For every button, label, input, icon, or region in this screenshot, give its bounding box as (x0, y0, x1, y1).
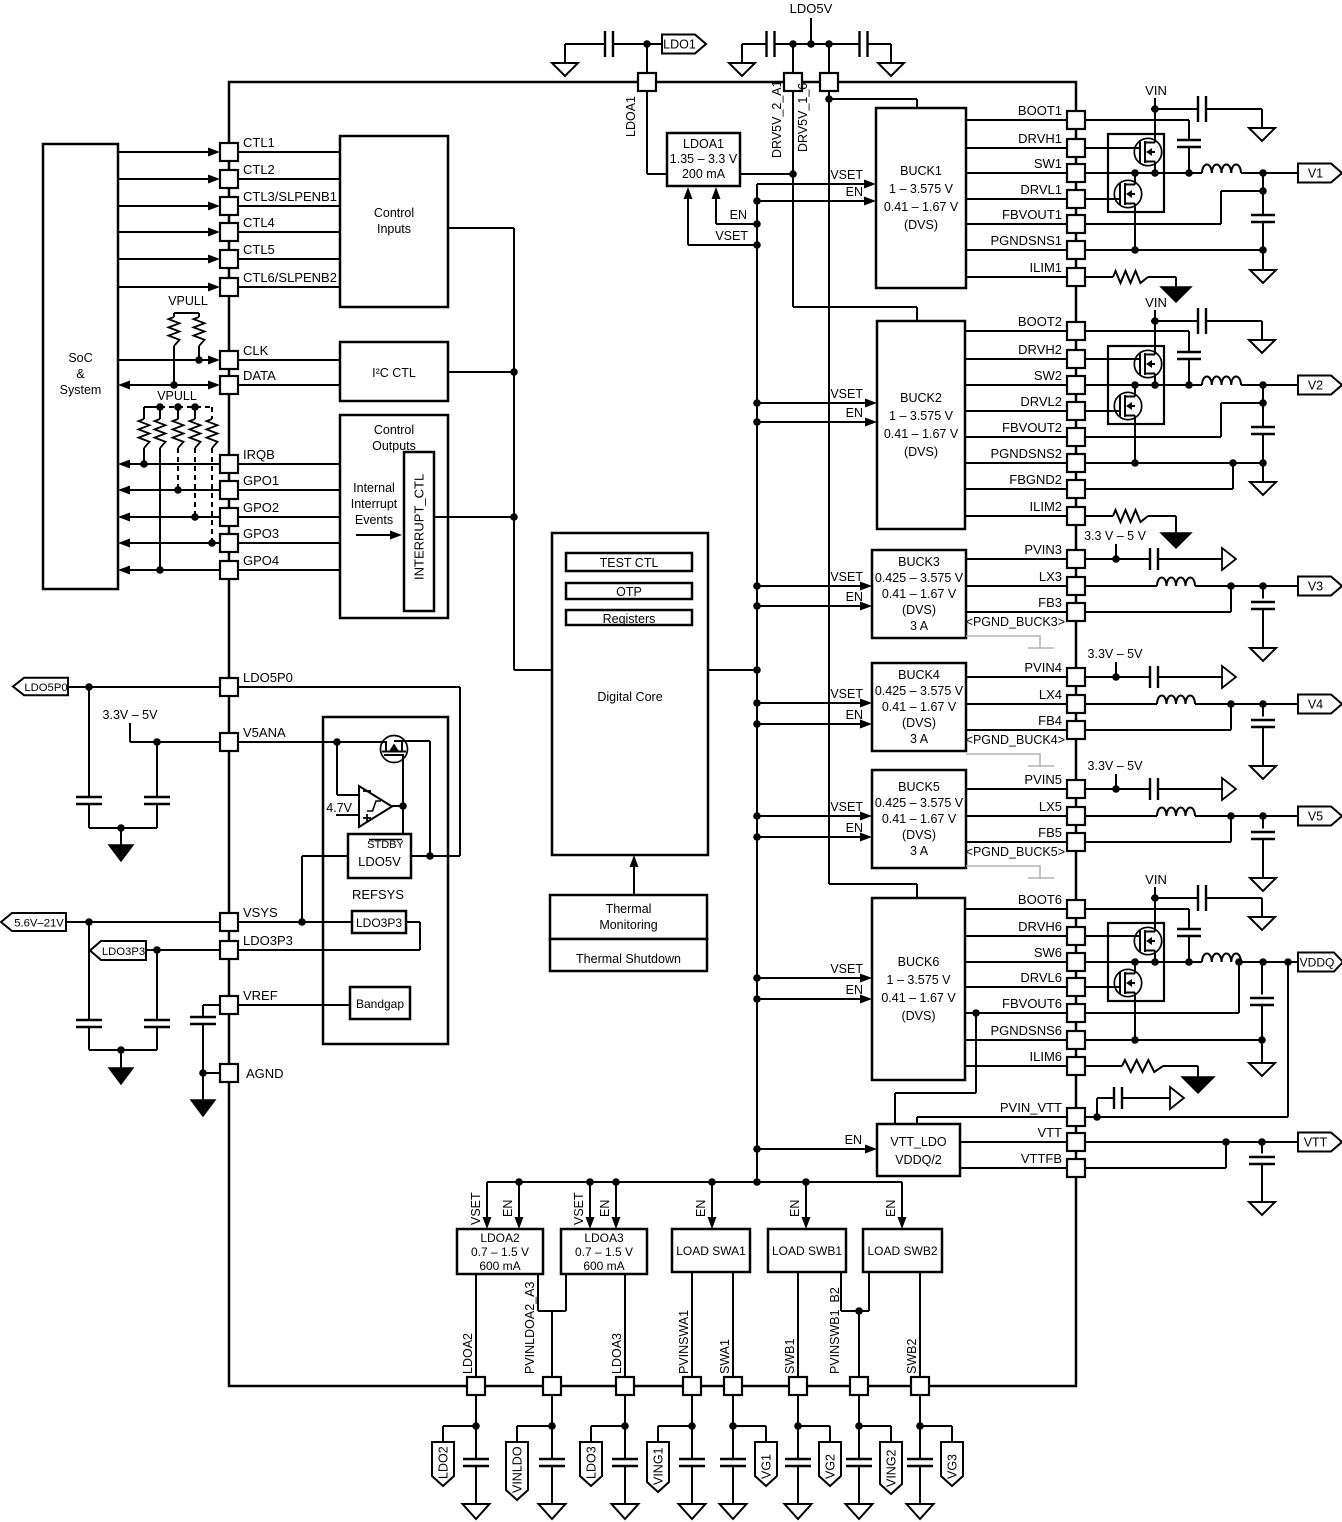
pin CTL3/SLPENB1 (220, 189, 337, 215)
svg-text:0.7 – 1.5 V: 0.7 – 1.5 V (471, 1245, 529, 1259)
wire VIN cap to ground (BUCK1) (1206, 109, 1262, 128)
svg-text:V3: V3 (1308, 580, 1323, 594)
wire CTL6/SLPENB2 to Control Inputs (238, 286, 340, 288)
transistor Q2H (high side) (1085, 321, 1162, 385)
label VSET (BUCK6) (830, 962, 863, 976)
node LDO5V output junction (426, 852, 434, 860)
svg-text:CTL2: CTL2 (243, 162, 275, 177)
svg-text:LX5: LX5 (1039, 799, 1062, 814)
flag VG3 (941, 1442, 963, 1486)
wire VSYS cap ground join (89, 1046, 157, 1068)
svg-text:STDBY: STDBY (367, 839, 404, 851)
wire SoC to CTL2 (118, 175, 220, 184)
ground (VIN BUCK6) (1249, 917, 1275, 930)
pin GPO3 (220, 526, 279, 552)
wire VSET to BUCK3 (757, 582, 872, 591)
label EN (LDOA1) (730, 208, 747, 222)
svg-text:EN: EN (846, 708, 863, 722)
svg-text:EN: EN (846, 983, 863, 997)
ground PGND_BUCK3 (ghost) (966, 636, 1054, 648)
label 3.3V-5V (BUCK3) (1084, 529, 1147, 543)
svg-text:DRVL2: DRVL2 (1020, 394, 1062, 409)
pin PVIN3 (1024, 542, 1085, 568)
svg-text:BOOT2: BOOT2 (1018, 314, 1062, 329)
svg-text:VSET: VSET (830, 168, 863, 182)
wire FBVOUT1 internal (966, 223, 1067, 225)
svg-text:Events: Events (355, 513, 393, 527)
wire LX3 internal (966, 585, 1067, 587)
wire GPO4 to Control Outputs (238, 569, 340, 571)
svg-text:(DVS): (DVS) (901, 1009, 935, 1023)
svg-text:VTT: VTT (1037, 1125, 1062, 1140)
pin LX4 (1039, 687, 1085, 713)
svg-text:PVIN4: PVIN4 (1024, 660, 1062, 675)
wire DRVL2 internal (965, 410, 1067, 412)
ground (VOUT2) (1250, 482, 1276, 495)
svg-text:EN: EN (845, 1133, 862, 1147)
svg-text:CTL4: CTL4 (243, 215, 275, 230)
svg-text:PVINLDOA2_A3: PVINLDOA2_A3 (523, 1282, 537, 1374)
wire PVIN4 internal (966, 676, 1067, 678)
inductor L4 (1085, 696, 1298, 708)
wire BOOT1 external (1085, 120, 1189, 140)
wire PGNDSNS6 external (1085, 1036, 1262, 1044)
capacitor C_VTT (1249, 1142, 1275, 1202)
svg-text:BUCK5: BUCK5 (898, 780, 940, 794)
ground (VOUT4) (1250, 766, 1276, 779)
net label VIN (BUCK2) (1145, 295, 1167, 310)
svg-text:1 – 3.575 V: 1 – 3.575 V (889, 182, 954, 196)
label EN (LDOA2) (501, 1200, 515, 1217)
wire PVINLDOA2_A3 tee (538, 1274, 566, 1377)
svg-text:OTP: OTP (616, 585, 642, 599)
resistor R_PU_IRQB (139, 419, 150, 464)
wire DRVL6 internal (965, 986, 1067, 988)
wire LDOA1 output (740, 173, 793, 175)
wire EN to BUCK4 (757, 720, 872, 729)
svg-text:DRV5V_1_6: DRV5V_1_6 (796, 83, 810, 152)
svg-text:EN: EN (846, 406, 863, 420)
svg-text:LDOA2: LDOA2 (461, 1333, 475, 1374)
pin DRVL1 (1020, 182, 1085, 208)
buffer symbol (PVIN5) (1222, 778, 1236, 800)
wire C_BOOT6 to SW (1185, 936, 1193, 966)
wire FB5 external (1085, 816, 1231, 842)
wire PVIN5 external (1085, 788, 1150, 790)
wire ILIM6 internal (965, 1065, 1067, 1067)
svg-text:&: & (76, 367, 85, 381)
wire LX5 internal (966, 815, 1067, 817)
svg-text:CLK: CLK (243, 343, 269, 358)
svg-text:SWA1: SWA1 (718, 1339, 732, 1374)
svg-text:VINLDO: VINLDO (511, 1446, 525, 1493)
wire FBVOUT2 internal (965, 436, 1067, 438)
svg-text:VDDQ: VDDQ (1300, 956, 1335, 970)
svg-text:<PGND_BUCK4>: <PGND_BUCK4> (966, 733, 1065, 747)
svg-text:FBGND2: FBGND2 (1009, 472, 1062, 487)
wire PVIN3 internal (966, 558, 1067, 560)
svg-text:Inputs: Inputs (377, 222, 411, 236)
pin VREF (220, 988, 278, 1014)
pin SWB2 (905, 1339, 929, 1395)
svg-text:DATA: DATA (243, 368, 276, 383)
svg-text:EN: EN (788, 1200, 802, 1217)
capacitor C_OUT6 (1250, 962, 1274, 1063)
wire VPULL bracket solid (144, 407, 160, 419)
pin SWB1 (783, 1339, 807, 1395)
wire CTL2 to Control Inputs (238, 178, 340, 180)
power stage box (BUCK2) (1108, 346, 1164, 424)
wire Control Inputs to Digital Core (448, 228, 552, 670)
svg-text:0.41 – 1.67 V: 0.41 – 1.67 V (882, 587, 957, 601)
svg-text:VSET: VSET (830, 687, 863, 701)
label 3.3V-5V (BUCK5) (1088, 759, 1144, 773)
label EN (BUCK4) (846, 708, 863, 722)
capacitor C_OUT2 (1251, 385, 1275, 482)
pin DRVL2 (1020, 394, 1085, 420)
net label VIN (BUCK1) (1145, 83, 1167, 98)
pin CTL2 (220, 162, 275, 188)
node LDO5V junctions (789, 40, 833, 48)
wire VTTFB external (1085, 1142, 1226, 1168)
wire VIN (BUCK6) (1151, 887, 1198, 928)
svg-text:System: System (60, 383, 102, 397)
wire DRVH2 internal (965, 358, 1067, 360)
ground (VTT) (1249, 1202, 1275, 1215)
pin GPO4 (220, 553, 279, 579)
regulator LDOA2 (457, 1229, 543, 1274)
svg-text:0.41 – 1.67 V: 0.41 – 1.67 V (881, 991, 956, 1005)
wire DRVH6 internal (965, 935, 1067, 937)
ground (ILIM1) (1161, 287, 1191, 302)
converter BUCK3 (872, 550, 966, 638)
svg-text:SWB1: SWB1 (783, 1339, 797, 1374)
svg-text:0.41 – 1.67 V: 0.41 – 1.67 V (882, 700, 957, 714)
svg-text:TEST CTL: TEST CTL (600, 556, 659, 570)
ground (VSYS caps) (109, 1068, 133, 1084)
wire CTL5 to Control Inputs (238, 258, 340, 260)
flag LDO2 (432, 1442, 454, 1486)
resistor R_ILIM2 (1085, 510, 1176, 533)
wire PGNDSNS2 internal (965, 462, 1067, 464)
inductor L5 (1085, 808, 1298, 820)
svg-text:GPO3: GPO3 (243, 526, 279, 541)
wire comparator plus input (336, 814, 359, 816)
wire LDO3P3 left (146, 946, 220, 954)
pin LDO3P3 (220, 933, 293, 959)
svg-text:INTERRUPT_CTL: INTERRUPT_CTL (412, 474, 427, 580)
converter BUCK5 (872, 770, 966, 868)
svg-text:LDO5P0: LDO5P0 (243, 670, 293, 685)
svg-text:Registers: Registers (603, 612, 656, 626)
wire comparator minus input (337, 742, 359, 795)
net label VIN (BUCK6) (1145, 872, 1167, 887)
svg-text:LDOA2: LDOA2 (480, 1231, 520, 1245)
wire DRV5V_1_6 rail (828, 91, 830, 884)
wire BOOT1 internal (966, 119, 1067, 121)
ground (LDO5V right) (878, 44, 904, 76)
ground PGND_BUCK5 (ghost) (966, 866, 1054, 878)
wire VSYS internal (238, 918, 352, 926)
wire PVIN_VTT external (1085, 962, 1288, 1121)
wire EN to LDOA3 (612, 1182, 621, 1229)
wire SWB1 to pin (797, 1272, 799, 1377)
wire LDO3 branch (591, 1395, 629, 1442)
flag V1 (1298, 164, 1342, 183)
svg-text:SW2: SW2 (1034, 368, 1062, 383)
ground (ILIM6) (1182, 1077, 1214, 1093)
pin BOOT1 (1018, 103, 1085, 129)
svg-text:3 A: 3 A (910, 619, 929, 633)
resistor R_ILIM6 (1085, 1060, 1198, 1077)
capacitor C_OUT5 (1251, 816, 1275, 878)
wire PGNDSNS2 external (1085, 459, 1263, 467)
svg-text:(DVS): (DVS) (902, 716, 936, 730)
block Registers (566, 610, 692, 626)
pin CTL4 (220, 215, 275, 241)
wire VIN (BUCK2) (1151, 310, 1198, 351)
wire VSET to LDOA1 (684, 187, 758, 245)
wire GPO1 to Control Outputs (238, 489, 340, 491)
svg-text:DRVH6: DRVH6 (1018, 919, 1062, 934)
svg-text:BUCK3: BUCK3 (898, 555, 940, 569)
wire ILIM2 internal (965, 515, 1067, 517)
pin BOOT6 (1018, 892, 1085, 918)
wire FB4 internal (966, 729, 1067, 731)
label EN (LOAD SWB1) (788, 1200, 802, 1217)
wire PVINSWB1_B2 tee (841, 1272, 869, 1377)
label EN (VTT_LDO) (845, 1133, 862, 1147)
ground (VG1) (720, 1504, 747, 1519)
label VSET (LDOA3) (572, 1192, 586, 1225)
wire DRV5V_2_A1 stub (792, 44, 794, 73)
wire VING1 branch (658, 1395, 696, 1442)
wire EN to BUCK2 (757, 418, 877, 427)
buffer symbol (PVIN4) (1222, 666, 1236, 688)
svg-text:FB3: FB3 (1038, 595, 1062, 610)
wire VSET-EN bus (756, 184, 758, 1182)
svg-text:EN: EN (501, 1200, 515, 1217)
pin FBVOUT2 (1002, 420, 1085, 446)
ground (LDO2) (463, 1504, 490, 1519)
wire PGNDSNS6 internal (965, 1039, 1067, 1041)
wire SWB2 to pin (919, 1272, 921, 1377)
flag VING2 (880, 1442, 902, 1494)
label EN (BUCK2) (846, 406, 863, 420)
wire PVIN4 supply tick (1112, 662, 1120, 681)
svg-text:3.3V – 5V: 3.3V – 5V (1088, 759, 1144, 773)
flag VG2 (819, 1442, 841, 1486)
svg-text:V1: V1 (1308, 167, 1323, 181)
wire VINLDO branch (517, 1395, 556, 1442)
wire SW6 node (1085, 954, 1298, 966)
wire VSET to BUCK5 (757, 812, 872, 821)
wire EN to LOAD SWB2 (898, 1182, 907, 1229)
block Thermal Shutdown (550, 939, 707, 971)
transistor Q6L (low side) (1085, 962, 1142, 1040)
ground (ILIM2) (1161, 533, 1191, 548)
block Control Inputs (340, 136, 448, 307)
block LOAD SWB2 (863, 1229, 942, 1272)
wire LDOA3 to pin (624, 1274, 626, 1377)
ground (VING1) (679, 1504, 706, 1519)
pin V5ANA (220, 725, 286, 751)
pin DATA (220, 368, 276, 394)
label EN (BUCK3) (846, 590, 863, 604)
svg-text:Thermal: Thermal (606, 902, 652, 916)
resistor R_PU_GPO3 (207, 419, 218, 543)
svg-text:GPO2: GPO2 (243, 500, 279, 515)
label PGND_BUCK5 (966, 845, 1065, 859)
svg-text:4.7V: 4.7V (326, 801, 352, 815)
flag VG1 (755, 1442, 777, 1486)
resistor R_PU_GPO1 (173, 407, 184, 490)
flag LDO5P0 (13, 678, 68, 695)
resistor R_VPULL_CLK (194, 313, 205, 360)
pin LX5 (1039, 799, 1085, 825)
pin VTT (1037, 1125, 1085, 1151)
pin FB3 (1038, 595, 1085, 621)
wire EN to BUCK6 (757, 995, 872, 1004)
converter BUCK4 (872, 663, 966, 751)
wire BOOT6 internal (965, 908, 1067, 910)
flag VING1 (647, 1442, 669, 1492)
wire EN to LDOA2 (515, 1182, 524, 1229)
svg-text:0.41 – 1.67 V: 0.41 – 1.67 V (884, 427, 959, 441)
pin PVIN4 (1024, 660, 1085, 686)
label PGND_BUCK4 (966, 733, 1065, 747)
label VSET (LDOA2) (469, 1192, 483, 1225)
svg-text:REFSYS: REFSYS (352, 887, 404, 902)
svg-text:VDDQ/2: VDDQ/2 (895, 1153, 942, 1167)
svg-text:EN: EN (730, 208, 747, 222)
svg-text:Interrupt: Interrupt (351, 497, 398, 511)
pin CTL5 (220, 242, 275, 268)
wire GPO3 to SoC (118, 539, 220, 548)
svg-text:EN: EN (846, 590, 863, 604)
pin GPO1 (220, 473, 279, 499)
wire VIN cap to ground (BUCK6) (1206, 898, 1262, 917)
svg-text:0.425 – 3.575 V: 0.425 – 3.575 V (875, 796, 964, 810)
pin SWA1 (718, 1339, 742, 1395)
label 4.7V (326, 801, 352, 815)
wire EN to LOAD SWB1 (802, 1182, 811, 1229)
svg-text:VSET: VSET (572, 1192, 586, 1225)
svg-text:LDO2: LDO2 (437, 1446, 451, 1479)
regulator VTT_LDO (877, 1124, 960, 1176)
wire FB3 internal (966, 611, 1067, 613)
label EN (LOAD SWA1) (694, 1200, 708, 1217)
svg-text:ILIM2: ILIM2 (1029, 499, 1062, 514)
block Digital Core (552, 533, 708, 855)
wire GPO4 to SoC (118, 566, 220, 575)
svg-text:LX3: LX3 (1039, 569, 1062, 584)
wire LDOA1 pin to LDO1 node (646, 44, 648, 73)
wire PVINSWA1 to pin (691, 1272, 693, 1377)
svg-text:V5: V5 (1308, 810, 1323, 824)
pin PGNDSNS1 (990, 233, 1085, 259)
svg-text:VG1: VG1 (760, 1454, 774, 1479)
svg-text:BUCK4: BUCK4 (898, 668, 940, 682)
pin SW1 (1034, 156, 1085, 182)
pin PVIN_VTT (1000, 1100, 1085, 1126)
svg-text:BOOT1: BOOT1 (1018, 103, 1062, 118)
pin PVINSWB1_B2 (828, 1287, 868, 1395)
label VSET (BUCK5) (830, 800, 863, 814)
svg-text:1.35 – 3.3 V: 1.35 – 3.3 V (670, 152, 738, 166)
svg-text:VSET: VSET (715, 229, 748, 243)
wire VTTFB internal (960, 1167, 1067, 1169)
capacitor C_VG1 (720, 1426, 746, 1504)
wire VG1 branch (729, 1395, 766, 1442)
svg-text:Thermal Shutdown: Thermal Shutdown (576, 952, 681, 966)
svg-text:DRVH2: DRVH2 (1018, 342, 1062, 357)
label VSET (BUCK4) (830, 687, 863, 701)
flag VDDQ (1298, 953, 1342, 972)
wire ILIM1 internal (966, 276, 1067, 278)
ground (VG2) (785, 1504, 812, 1519)
capacitor C_LDO1 (605, 31, 613, 57)
wire VSET to LDOA2 (483, 1182, 492, 1229)
wire VG2 branch (794, 1395, 830, 1442)
wire FB3 external (1085, 586, 1231, 612)
pin VSYS (220, 905, 278, 931)
ground (LDO1 decoupling) (552, 44, 578, 76)
wire FBGND2 internal (965, 488, 1067, 490)
block I2C CTL (340, 342, 448, 401)
wire SW2 node (1085, 377, 1298, 389)
wire VG3 branch (916, 1395, 952, 1442)
svg-text:GPO4: GPO4 (243, 553, 279, 568)
inductor L3 (1085, 578, 1298, 590)
wire VIN cap to ground (BUCK2) (1206, 321, 1262, 340)
wire LDOA1 pin to block (647, 91, 667, 174)
svg-text:LOAD SWA1: LOAD SWA1 (676, 1244, 746, 1258)
wire EN to VTT_LDO (757, 1145, 877, 1154)
svg-text:BUCK6: BUCK6 (898, 955, 940, 969)
svg-text:LDOA3: LDOA3 (610, 1333, 624, 1374)
pin BOOT2 (1018, 314, 1085, 340)
resistor R_VPULL_DATA (169, 313, 180, 385)
svg-text:3.3V – 5V: 3.3V – 5V (1088, 647, 1144, 661)
power stage box (BUCK1) (1108, 134, 1164, 212)
wire AGND to ground (199, 1069, 220, 1100)
capacitor C_OUT4 (1251, 704, 1275, 766)
svg-text:PGNDSNS2: PGNDSNS2 (990, 446, 1062, 461)
wire VSET to BUCK1 (757, 180, 876, 189)
capacitor C_LDO3P3 (144, 950, 170, 1050)
svg-text:VSET: VSET (830, 387, 863, 401)
wire PVIN5 supply tick (1112, 774, 1120, 793)
svg-text:VSET: VSET (469, 1192, 483, 1225)
svg-text:EN: EN (884, 1200, 898, 1217)
label EN (BUCK5) (846, 821, 863, 835)
svg-text:LDOA3: LDOA3 (584, 1231, 624, 1245)
block LOAD SWA1 (672, 1229, 750, 1272)
svg-text:VPULL: VPULL (157, 389, 197, 403)
svg-text:LDOA1: LDOA1 (624, 96, 638, 137)
svg-text:SWB2: SWB2 (905, 1339, 919, 1374)
wire PVIN3 external (1085, 558, 1150, 560)
flag LDO3P3 (90, 941, 146, 960)
pin PVIN5 (1024, 772, 1085, 798)
pin FB4 (1038, 713, 1085, 739)
ground (VOUT5) (1250, 878, 1276, 891)
wire comparator output to gate (392, 755, 407, 834)
svg-text:PGNDSNS6: PGNDSNS6 (990, 1023, 1062, 1038)
pin SW2 (1034, 368, 1085, 394)
node LDO1 junction (643, 40, 651, 48)
